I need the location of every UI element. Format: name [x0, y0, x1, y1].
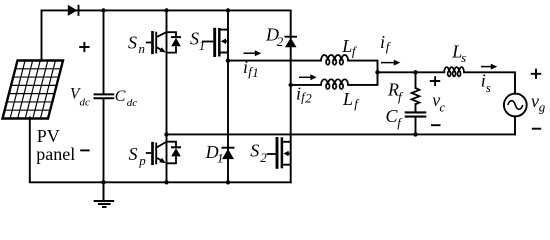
svg-text:1: 1	[252, 65, 258, 80]
svg-text:s: s	[486, 80, 491, 95]
arrow i_s	[481, 64, 497, 70]
transistor S_2 (MOSFET)	[267, 137, 291, 169]
svg-text:s: s	[461, 50, 466, 65]
inductor L_s	[444, 67, 464, 76]
wire i_f output rail	[378, 72, 516, 94]
node ground / Cdc bottom	[101, 180, 105, 184]
node i_f output	[375, 70, 379, 74]
svg-text:L: L	[342, 89, 353, 109]
resistor R_f	[412, 88, 420, 104]
transistor S_n (IGBT with antiparallel diode)	[146, 31, 181, 54]
node top of leg S1	[226, 8, 230, 12]
arrow i_f1	[244, 50, 262, 56]
svg-text:2: 2	[305, 91, 312, 106]
wire leg S_n / S_p vertical	[166, 10, 168, 182]
svg-text:c: c	[440, 100, 446, 115]
AC source v_g	[504, 94, 527, 117]
wire top rail	[42, 10, 291, 60]
svg-text:S: S	[250, 141, 259, 161]
wire Cdc branch	[103, 10, 105, 182]
wire i_f1 rail	[228, 61, 378, 73]
wire leg S_1 / D_1 vertical	[227, 10, 229, 182]
svg-text:i: i	[380, 32, 385, 52]
inductor L_f (bottom)	[321, 79, 348, 89]
ground	[94, 182, 115, 207]
label + (v_c plus)	[430, 76, 440, 86]
node Cf bottom	[413, 132, 417, 136]
capacitor C_f	[405, 112, 427, 116]
wire Rf Cf branch	[415, 72, 417, 134]
svg-text:v: v	[531, 91, 539, 111]
diode D_2	[285, 37, 298, 48]
label - (v_c minus)	[431, 124, 441, 126]
svg-text:1: 1	[217, 150, 224, 165]
svg-text:S: S	[190, 29, 199, 49]
wire phase rail (node between legs to vg)	[167, 133, 516, 135]
svg-text:C: C	[115, 88, 126, 105]
svg-text:panel: panel	[36, 144, 75, 164]
svg-text:1: 1	[199, 38, 206, 53]
svg-text:p: p	[138, 153, 146, 168]
diode at top-left (blocking diode)	[68, 5, 79, 16]
wire D2/S2 vertical branch	[290, 10, 292, 182]
capacitor C_dc	[94, 94, 115, 98]
svg-text:S: S	[129, 144, 138, 164]
svg-text:PV: PV	[37, 126, 60, 146]
wire i_f2 rail	[291, 72, 378, 85]
transistor S_p (IGBT with antiparallel diode)	[146, 142, 181, 165]
wire bottom rail	[30, 118, 291, 183]
svg-text:n: n	[139, 41, 146, 56]
node Rf top	[413, 70, 417, 74]
svg-text:L: L	[341, 36, 352, 56]
svg-text:dc: dc	[127, 97, 138, 109]
node Sp emitter	[164, 180, 168, 184]
arrow i_f	[381, 60, 400, 66]
svg-text:2: 2	[260, 150, 267, 165]
svg-text:S: S	[128, 32, 137, 52]
node top of leg Sn	[164, 8, 168, 12]
label - (Vdc minus)	[80, 149, 89, 151]
node i_f2 tap	[289, 83, 293, 87]
node phase A (Sn-Sp midpoint)	[164, 132, 168, 136]
PV panel	[3, 61, 64, 119]
svg-text:2: 2	[277, 34, 284, 49]
label + (Vdc plus)	[79, 42, 89, 52]
diode D_1	[222, 148, 235, 159]
node i_f1 tap	[226, 58, 230, 62]
svg-text:i: i	[243, 57, 248, 77]
label - (v_g minus)	[532, 128, 541, 130]
node top of Cdc branch	[101, 8, 105, 12]
inductor L_f (top)	[321, 55, 348, 65]
arrow i_f2	[299, 74, 317, 80]
svg-text:g: g	[539, 99, 546, 114]
node D1 anode	[226, 180, 230, 184]
wire vg bottom lead	[514, 116, 516, 134]
transistor S_1 (MOSFET)	[202, 28, 228, 57]
label + (v_g plus)	[531, 69, 541, 79]
svg-text:dc: dc	[80, 97, 91, 109]
